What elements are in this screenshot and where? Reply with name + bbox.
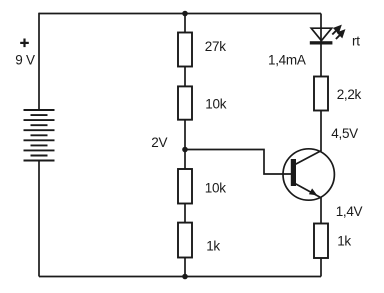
battery plus sign [20,39,29,48]
svg-text:10k: 10k [205,97,226,112]
wire top rail [39,13,321,15]
resistor 10k lower [178,169,192,204]
resistor 1k right [314,224,328,259]
wire right vertical upper (LED + collector) [320,14,322,152]
wire bottom rail [39,276,321,278]
resistor 1k middle [178,223,192,258]
svg-text:9 V: 9 V [15,52,35,67]
wire middle vertical (divider chain) [184,14,186,277]
svg-text:2V: 2V [151,135,167,150]
wire left vertical lower (battery -) [38,161,40,277]
svg-text:10k: 10k [205,180,226,195]
svg-text:rt: rt [352,34,360,49]
node 2V junction [182,147,188,153]
svg-text:27k: 27k [205,39,226,54]
svg-text:1,4V: 1,4V [336,204,363,219]
battery 9V [24,110,55,161]
resistor 2,2k [314,77,328,111]
svg-text:1k: 1k [337,233,351,248]
svg-text:1,4mA: 1,4mA [268,53,306,68]
resistor 10k upper [178,86,192,119]
node bottom junction [182,274,188,280]
svg-text:4,5V: 4,5V [331,126,358,141]
svg-text:1k: 1k [206,239,220,254]
LED rt [310,28,333,44]
svg-text:2,2k: 2,2k [337,87,362,102]
transistor NPN [283,149,334,200]
LED light arrows [332,26,344,39]
wire base connection from 2V node [185,150,291,175]
resistor 27k [178,33,192,67]
wire left vertical upper (battery +) [38,13,40,110]
node top junction [182,11,188,17]
wire right vertical lower (emitter to 1k) [320,198,322,277]
